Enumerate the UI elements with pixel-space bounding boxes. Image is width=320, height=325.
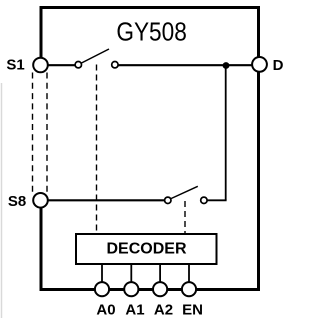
control line from decoder to SW1 (dashed) (96, 65, 98, 234)
svg-text:EN: EN (182, 302, 203, 319)
wire decoder to A1 (130, 264, 132, 283)
scan artifact: faint grey streak at left edge (1, 83, 3, 318)
switch SW1 left contact (75, 61, 81, 67)
terminal D (252, 57, 267, 72)
switch SW1 right contact (112, 61, 118, 67)
svg-text:DECODER: DECODER (107, 241, 187, 258)
svg-text:S8: S8 (8, 193, 26, 210)
wire decoder to A2 (159, 264, 161, 283)
wire S1 to switch SW1 left contact (46, 64, 76, 66)
junction dot on D wire (223, 62, 230, 69)
enclosure left border top segment (40, 6, 43, 62)
wire SW1 right contact to D (118, 64, 253, 66)
enclosure right border (257, 6, 260, 291)
wire SW8 right contact to vertical wire (207, 199, 227, 201)
switch SW8 arm (171, 186, 198, 198)
terminal A1 (124, 282, 138, 296)
svg-text:A1: A1 (125, 302, 144, 319)
terminal S8 (33, 193, 48, 208)
svg-text:D: D (273, 57, 284, 74)
terminal S1 (33, 58, 48, 73)
control line from decoder to SW8 (dashed) (184, 201, 186, 233)
wire junction down to SW8 (225, 66, 227, 201)
switch SW1 arm (82, 49, 110, 63)
svg-text:A2: A2 (154, 302, 173, 319)
decoder box U1 (76, 234, 217, 264)
enclosure left border bottom segment (40, 203, 43, 291)
dashed ellipsis line left (S1..S8) (32, 73, 34, 195)
enclosure top border (40, 6, 261, 9)
wire S8 to switch SW8 left contact (46, 199, 165, 201)
wire decoder to EN (188, 264, 190, 283)
dashed ellipsis line right (S1..S8) (46, 73, 48, 195)
terminal EN (182, 282, 196, 296)
svg-text:A0: A0 (96, 302, 115, 319)
switch SW8 right contact (201, 197, 207, 203)
terminal A0 (95, 282, 109, 296)
wire decoder to A0 (101, 264, 103, 283)
switch SW8 left contact (165, 197, 171, 203)
enclosure bottom border (40, 288, 261, 291)
svg-text:GY508: GY508 (116, 16, 187, 46)
terminal A2 (153, 282, 167, 296)
svg-text:S1: S1 (6, 57, 24, 74)
